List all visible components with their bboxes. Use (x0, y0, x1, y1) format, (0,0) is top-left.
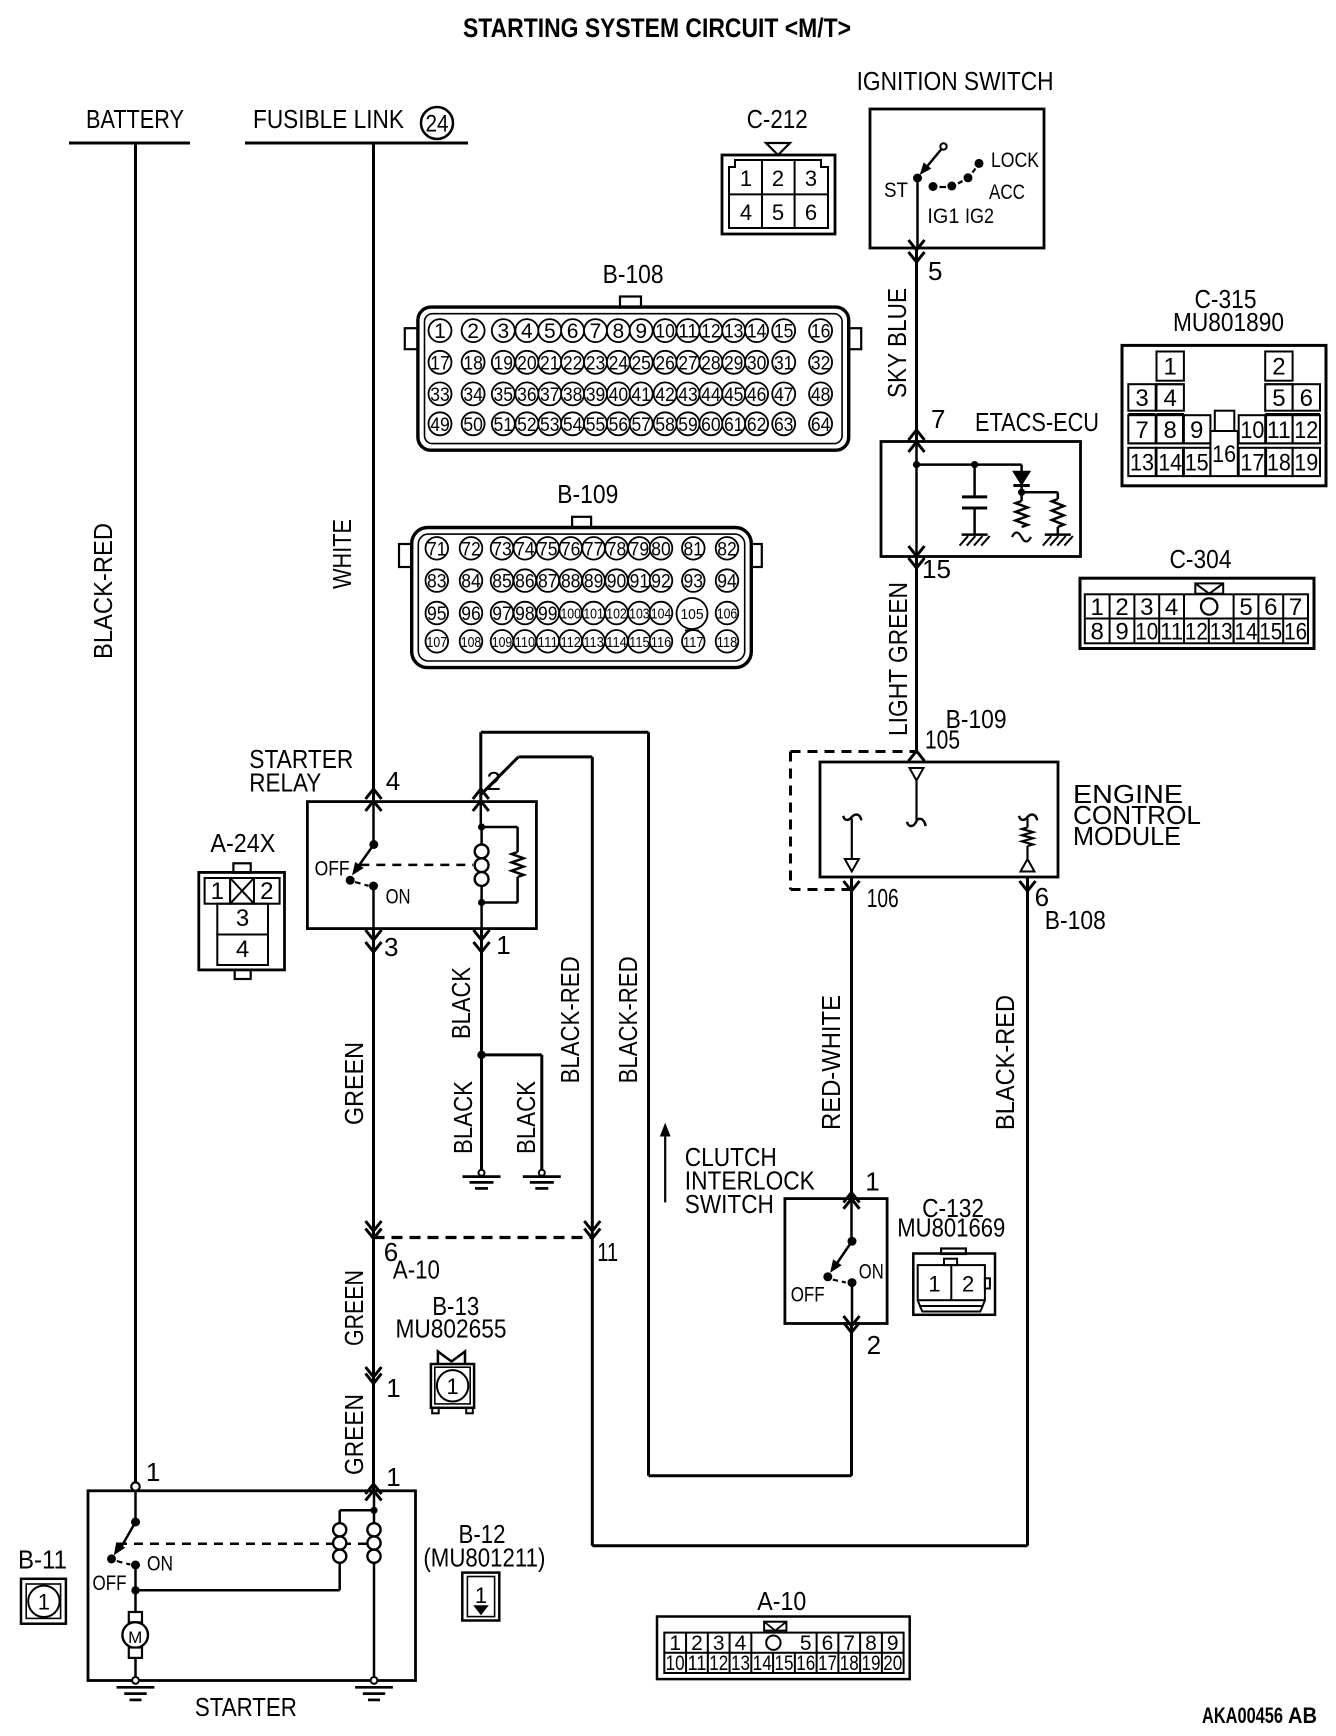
connector A-10 housing (657, 1617, 910, 1680)
svg-text:1: 1 (928, 1272, 940, 1297)
svg-text:73: 73 (492, 539, 512, 560)
ground under starter solenoid (355, 1686, 393, 1689)
connector A-24X housing (233, 863, 250, 872)
ignition switch box (870, 109, 1044, 248)
arrows at starter pin 1 (366, 1484, 382, 1494)
svg-text:11: 11 (597, 1237, 618, 1267)
connector arrows at relay pin 4 (366, 789, 382, 799)
svg-text:74: 74 (515, 539, 535, 560)
relay coil parallel resistor (482, 826, 518, 829)
wire relay pin 2 riser (479, 732, 482, 801)
svg-text:94: 94 (717, 572, 737, 593)
battery terminal bar (69, 142, 190, 145)
inline connector arrows on GREEN wire (B-13) (366, 1367, 382, 1377)
svg-text:ON: ON (859, 1261, 884, 1284)
svg-text:B-11: B-11 (18, 1545, 67, 1575)
svg-text:109: 109 (492, 635, 513, 651)
svg-text:3: 3 (1140, 594, 1153, 621)
svg-text:BLACK-RED: BLACK-RED (990, 995, 1020, 1130)
svg-text:BLACK: BLACK (511, 1080, 541, 1154)
svg-text:101: 101 (583, 607, 604, 623)
svg-text:1: 1 (211, 878, 224, 905)
svg-text:2: 2 (962, 1272, 974, 1297)
svg-text:1: 1 (740, 166, 752, 191)
svg-text:C-304: C-304 (1170, 544, 1232, 574)
svg-text:IGNITION SWITCH: IGNITION SWITCH (857, 66, 1054, 96)
svg-text:91: 91 (630, 572, 650, 593)
svg-text:MU801890: MU801890 (1173, 307, 1284, 337)
svg-text:12: 12 (701, 322, 721, 343)
svg-text:10: 10 (1240, 417, 1264, 444)
svg-text:23: 23 (586, 353, 606, 374)
svg-text:LIGHT GREEN: LIGHT GREEN (883, 582, 913, 736)
starter switch (134, 1491, 137, 1522)
wire loop relay pin2 to clutch switch (481, 731, 649, 734)
svg-text:55: 55 (586, 415, 606, 436)
svg-text:16: 16 (811, 322, 831, 343)
svg-text:106: 106 (867, 883, 899, 913)
svg-text:A-10: A-10 (393, 1255, 440, 1285)
svg-text:1: 1 (496, 930, 510, 960)
svg-text:OFF: OFF (93, 1572, 127, 1595)
svg-text:71: 71 (427, 539, 447, 560)
svg-text:80: 80 (651, 539, 671, 560)
connector arrows at ETACS exit (909, 546, 925, 556)
svg-text:62: 62 (747, 415, 767, 436)
svg-text:AB: AB (1288, 1703, 1317, 1728)
ETACS internal wire (915, 442, 918, 557)
svg-text:46: 46 (747, 385, 767, 406)
svg-text:24: 24 (609, 353, 629, 374)
starter motor ground node (132, 1677, 139, 1684)
svg-text:12: 12 (1294, 417, 1318, 444)
svg-text:WHITE: WHITE (327, 519, 357, 589)
svg-text:(MU801211): (MU801211) (423, 1543, 545, 1573)
svg-text:9: 9 (635, 320, 647, 343)
wire ignition ST to ETACS (SKY BLUE) (916, 178, 919, 248)
arrows at junction pin 11 (584, 1221, 600, 1231)
svg-text:10: 10 (666, 1652, 685, 1675)
svg-text:8: 8 (613, 320, 625, 343)
fusible link number 24 circle (421, 107, 453, 139)
svg-text:17: 17 (1240, 449, 1264, 476)
svg-text:116: 116 (651, 635, 672, 651)
svg-text:86: 86 (515, 572, 535, 593)
svg-text:64: 64 (811, 415, 831, 436)
connector arrows at relay pin 2 (473, 789, 489, 799)
svg-text:4: 4 (1165, 594, 1178, 621)
svg-text:5: 5 (1239, 594, 1252, 621)
ground for relay BLACK wire 1 (479, 1170, 485, 1176)
svg-text:3: 3 (497, 320, 509, 343)
svg-text:4: 4 (740, 200, 752, 225)
svg-text:59: 59 (678, 415, 698, 436)
svg-text:95: 95 (427, 604, 447, 625)
svg-text:27: 27 (678, 353, 698, 374)
connector A-10 grid (664, 1633, 903, 1673)
svg-text:RED-WHITE: RED-WHITE (816, 995, 846, 1130)
svg-text:49: 49 (430, 415, 450, 436)
svg-text:FUSIBLE LINK: FUSIBLE LINK (253, 104, 405, 134)
connector arrows at relay pin 3 (366, 930, 382, 940)
wire relay pin 3 to starter (GREEN) (372, 929, 375, 1491)
starter box (88, 1491, 416, 1681)
svg-text:1: 1 (386, 1373, 400, 1403)
svg-text:MODULE: MODULE (1073, 821, 1181, 851)
svg-text:110: 110 (515, 635, 536, 651)
svg-text:7: 7 (1289, 594, 1302, 621)
svg-text:79: 79 (630, 539, 650, 560)
svg-text:81: 81 (684, 539, 704, 560)
ETACS-ECU box (881, 442, 1081, 557)
arrow at ECM pin 106 exit (850, 877, 853, 1199)
svg-text:9: 9 (1190, 417, 1203, 444)
svg-text:M: M (128, 1628, 142, 1647)
svg-text:STARTING SYSTEM CIRCUIT <M/T>: STARTING SYSTEM CIRCUIT <M/T> (463, 13, 851, 43)
svg-text:12: 12 (709, 1652, 728, 1675)
ECM pin 6 output: hook, resistor and triangle (1019, 815, 1037, 821)
svg-text:11: 11 (1267, 417, 1291, 444)
connector C-315 cells (1157, 352, 1184, 381)
svg-text:18: 18 (840, 1652, 859, 1675)
svg-text:SWITCH: SWITCH (685, 1189, 774, 1219)
svg-text:5: 5 (544, 320, 556, 343)
relay coil (480, 802, 483, 827)
svg-text:5: 5 (1272, 385, 1285, 412)
svg-text:111: 111 (538, 635, 559, 651)
svg-text:19: 19 (494, 353, 514, 374)
svg-text:2: 2 (1115, 594, 1128, 621)
svg-text:B-108: B-108 (603, 259, 664, 289)
wire BLACK branch to second ground (482, 1053, 542, 1056)
svg-text:18: 18 (1267, 449, 1291, 476)
clutch interlock switch box (785, 1199, 887, 1324)
svg-text:BLACK-RED: BLACK-RED (555, 956, 585, 1083)
svg-text:7: 7 (931, 404, 945, 434)
svg-text:103: 103 (629, 607, 650, 623)
svg-text:29: 29 (724, 353, 744, 374)
svg-text:16: 16 (796, 1652, 815, 1675)
svg-text:3: 3 (1135, 385, 1148, 412)
connector arrows at clutch switch pin 1 (844, 1193, 860, 1203)
svg-text:45: 45 (724, 385, 744, 406)
svg-text:25: 25 (631, 353, 651, 374)
svg-text:9: 9 (1115, 619, 1128, 646)
svg-text:2: 2 (772, 166, 784, 191)
wire battery vertical (BLACK-RED) (134, 143, 137, 1483)
svg-text:78: 78 (607, 539, 627, 560)
svg-text:11: 11 (1160, 619, 1183, 646)
svg-text:2: 2 (260, 878, 273, 905)
dashed connector line A-10 (pins 6-11) (374, 1236, 593, 1239)
svg-text:88: 88 (561, 572, 581, 593)
svg-text:41: 41 (631, 385, 651, 406)
relay mechanical dashed link (360, 864, 473, 867)
svg-text:1: 1 (146, 1457, 160, 1487)
ECM pin 105 input: triangle and hook (910, 768, 924, 781)
svg-text:ON: ON (386, 886, 411, 909)
svg-text:IG1: IG1 (927, 205, 959, 228)
svg-text:BLACK: BLACK (448, 1080, 478, 1154)
connector B-108 housing (620, 297, 641, 308)
connector C-315 housing (1122, 345, 1326, 485)
connector B-109 pins 71-118 (426, 537, 449, 560)
svg-text:10: 10 (1135, 619, 1158, 646)
svg-text:13: 13 (724, 322, 744, 343)
connector C-304 grid (1085, 594, 1308, 643)
svg-text:6: 6 (1264, 594, 1277, 621)
svg-text:57: 57 (631, 415, 651, 436)
svg-text:OFF: OFF (791, 1284, 825, 1307)
svg-text:77: 77 (584, 539, 604, 560)
svg-text:58: 58 (655, 415, 675, 436)
svg-text:STARTER: STARTER (195, 1692, 297, 1722)
connector arrows at ignition switch exit (909, 240, 925, 250)
ignition switch contact dashes (940, 186, 947, 188)
svg-text:15: 15 (922, 554, 951, 584)
svg-text:IG2: IG2 (965, 205, 994, 228)
svg-text:5: 5 (928, 256, 942, 286)
svg-text:20: 20 (517, 353, 537, 374)
svg-text:1: 1 (1091, 594, 1104, 621)
svg-text:GREEN: GREEN (339, 1042, 369, 1125)
relay contact arm (372, 802, 375, 845)
wire relay pin 1 to ground (BLACK) (480, 929, 483, 1170)
starter solenoid ground node (371, 1677, 378, 1684)
svg-text:112: 112 (560, 635, 581, 651)
fusible link terminal bar (245, 142, 468, 145)
arrows at junction pin 6 (366, 1221, 382, 1231)
svg-text:56: 56 (609, 415, 629, 436)
svg-text:96: 96 (461, 604, 481, 625)
svg-text:15: 15 (774, 322, 794, 343)
svg-text:LOCK: LOCK (991, 149, 1039, 172)
svg-text:102: 102 (606, 607, 627, 623)
connector B-12 symbol (462, 1573, 499, 1621)
svg-text:72: 72 (461, 539, 481, 560)
svg-text:2: 2 (1272, 354, 1285, 381)
svg-text:26: 26 (655, 353, 675, 374)
svg-text:33: 33 (430, 385, 450, 406)
svg-text:115: 115 (629, 635, 650, 651)
svg-text:3: 3 (236, 905, 249, 932)
wire bottom run to ECM pin 6 wire (592, 1544, 1027, 1547)
connector B-11 symbol (21, 1579, 66, 1624)
svg-text:107: 107 (427, 635, 448, 651)
svg-text:113: 113 (583, 635, 604, 651)
connector arrows at relay pin 1 (474, 930, 490, 940)
svg-text:3: 3 (384, 932, 398, 962)
clutch switch contacts (850, 1199, 853, 1242)
svg-text:43: 43 (678, 385, 698, 406)
svg-text:85: 85 (492, 572, 512, 593)
starter mechanical dashed link (118, 1543, 367, 1546)
svg-text:1: 1 (865, 1167, 879, 1197)
svg-text:1: 1 (38, 1590, 50, 1615)
svg-text:B-108: B-108 (1045, 905, 1106, 935)
ignition switch contact dots IG1 IG2 ACC LOCK (929, 182, 938, 191)
svg-text:11: 11 (678, 322, 698, 343)
ground (chassis) under capacitor (962, 533, 988, 536)
svg-text:19: 19 (862, 1652, 881, 1675)
svg-text:BLACK-RED: BLACK-RED (613, 956, 643, 1083)
svg-text:2: 2 (867, 1330, 881, 1360)
svg-text:15: 15 (1259, 619, 1282, 646)
connector A-10 direction marker (764, 1622, 786, 1631)
svg-text:SKY BLUE: SKY BLUE (882, 288, 912, 398)
svg-text:40: 40 (609, 385, 629, 406)
connector C-212 housing (722, 155, 835, 234)
arrow at ECM pin 105 (909, 751, 925, 761)
svg-text:114: 114 (606, 635, 627, 651)
svg-text:42: 42 (655, 385, 675, 406)
svg-text:10: 10 (655, 322, 675, 343)
svg-text:BATTERY: BATTERY (86, 104, 184, 134)
svg-text:1: 1 (475, 1583, 487, 1608)
svg-text:GREEN: GREEN (339, 1394, 369, 1475)
svg-text:19: 19 (1294, 449, 1318, 476)
svg-text:44: 44 (701, 385, 721, 406)
svg-text:4: 4 (236, 936, 249, 963)
svg-text:3: 3 (805, 166, 817, 191)
engine control module box (820, 762, 1058, 877)
svg-text:2: 2 (467, 320, 479, 343)
svg-text:24: 24 (426, 111, 449, 138)
resistor R2 in ETACS (1022, 491, 1058, 494)
svg-text:A-24X: A-24X (210, 828, 275, 858)
svg-text:16: 16 (1284, 619, 1307, 646)
svg-text:1: 1 (446, 1374, 458, 1399)
svg-text:35: 35 (494, 385, 514, 406)
ground for relay BLACK wire 2 (539, 1170, 545, 1176)
svg-text:30: 30 (747, 353, 767, 374)
svg-text:28: 28 (701, 353, 721, 374)
svg-text:22: 22 (563, 353, 583, 374)
connector C-212 direction triangle (766, 143, 790, 155)
svg-text:36: 36 (517, 385, 537, 406)
svg-text:18: 18 (463, 353, 483, 374)
svg-text:15: 15 (774, 1652, 793, 1675)
svg-text:A-10: A-10 (757, 1586, 806, 1616)
connector C-212 grid (761, 161, 763, 228)
wire branch diagonal to BLACK-RED drop (481, 757, 519, 795)
svg-text:6: 6 (567, 320, 579, 343)
svg-text:4: 4 (1164, 385, 1177, 412)
svg-text:8: 8 (1164, 417, 1177, 444)
svg-text:B-109: B-109 (557, 479, 618, 509)
svg-text:BLACK: BLACK (446, 966, 476, 1039)
svg-text:7: 7 (1135, 417, 1148, 444)
ignition switch lever (925, 149, 942, 170)
svg-text:50: 50 (463, 415, 483, 436)
svg-text:106: 106 (717, 607, 738, 623)
svg-text:8: 8 (1091, 619, 1104, 646)
svg-text:ACC: ACC (989, 181, 1025, 204)
squiggle to other circuit under R1 (1012, 533, 1031, 542)
ground under starter motor (117, 1686, 155, 1689)
svg-text:C-212: C-212 (747, 104, 808, 134)
svg-text:15: 15 (1185, 449, 1209, 476)
svg-text:98: 98 (515, 604, 535, 625)
svg-text:14: 14 (747, 322, 767, 343)
svg-text:1: 1 (1164, 354, 1177, 381)
arrow at ECM pin 6 exit (1026, 877, 1029, 1546)
svg-text:11: 11 (687, 1652, 706, 1675)
svg-text:75: 75 (538, 539, 558, 560)
svg-text:14: 14 (1235, 619, 1258, 646)
svg-text:93: 93 (684, 572, 704, 593)
svg-text:48: 48 (811, 385, 831, 406)
svg-text:6: 6 (805, 200, 817, 225)
svg-text:31: 31 (774, 353, 794, 374)
svg-text:17: 17 (430, 353, 450, 374)
svg-text:34: 34 (463, 385, 483, 406)
svg-text:17: 17 (818, 1652, 837, 1675)
starter solenoid coils (370, 1507, 377, 1514)
svg-text:13: 13 (1130, 449, 1154, 476)
svg-text:82: 82 (717, 539, 737, 560)
svg-text:104: 104 (651, 607, 672, 623)
capacitor C1 in ETACS (973, 465, 976, 496)
svg-text:61: 61 (724, 415, 744, 436)
svg-text:7: 7 (590, 320, 602, 343)
starter motor M (134, 1590, 137, 1612)
svg-text:105: 105 (681, 606, 704, 623)
svg-text:63: 63 (774, 415, 794, 436)
wire fusible link to starter relay pin 4 (WHITE) (372, 143, 375, 802)
svg-text:100: 100 (560, 607, 581, 623)
wire ETACS to ECM (LIGHT GREEN) (915, 557, 918, 752)
svg-text:13: 13 (731, 1652, 750, 1675)
connector B-109 housing (572, 517, 591, 528)
starter switch to coil link (131, 1586, 139, 1594)
svg-text:6: 6 (1300, 385, 1313, 412)
svg-text:14: 14 (1158, 449, 1182, 476)
svg-text:4: 4 (521, 320, 533, 343)
svg-text:RELAY: RELAY (249, 768, 321, 798)
ECM pin 106 output: hook and triangle (843, 815, 861, 821)
svg-text:87: 87 (538, 572, 558, 593)
connector B-13 symbol (438, 1352, 465, 1365)
svg-text:20: 20 (883, 1652, 902, 1675)
connector arrows at ETACS entry (909, 430, 925, 440)
svg-text:97: 97 (492, 604, 512, 625)
engine control module dashed harness outline (791, 750, 917, 753)
junction dot BLACK split (477, 1051, 485, 1059)
svg-text:60: 60 (701, 415, 721, 436)
svg-text:16: 16 (1212, 441, 1236, 468)
svg-text:GREEN: GREEN (339, 1270, 369, 1346)
svg-text:32: 32 (811, 353, 831, 374)
svg-text:99: 99 (538, 604, 558, 625)
svg-text:117: 117 (683, 635, 704, 651)
svg-text:4: 4 (386, 766, 400, 796)
svg-text:76: 76 (561, 539, 581, 560)
svg-text:90: 90 (607, 572, 627, 593)
svg-text:92: 92 (651, 572, 671, 593)
svg-text:MU802655: MU802655 (396, 1314, 507, 1344)
svg-text:54: 54 (563, 415, 583, 436)
svg-text:37: 37 (540, 385, 560, 406)
svg-text:108: 108 (461, 635, 482, 651)
svg-text:AKA00456: AKA00456 (1202, 1703, 1283, 1728)
starter battery input node (131, 1482, 139, 1490)
svg-text:12: 12 (1185, 619, 1208, 646)
svg-text:MU801669: MU801669 (897, 1213, 1005, 1243)
svg-text:39: 39 (586, 385, 606, 406)
svg-text:14: 14 (753, 1652, 772, 1675)
svg-text:89: 89 (584, 572, 604, 593)
